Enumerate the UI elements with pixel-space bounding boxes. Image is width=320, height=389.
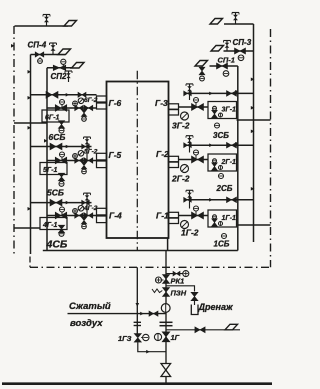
wire top-right vent line — [224, 23, 254, 25]
wire drop to main row 5 — [86, 147, 88, 161]
boundary dash-dot left — [13, 26, 15, 254]
boundary dashed left foot — [29, 257, 31, 268]
circle in box B 1 — [219, 222, 223, 226]
wire center drop — [136, 267, 138, 334]
stub pair G-4 — [97, 208, 107, 215]
boundary dashed right — [270, 29, 272, 267]
valve RK1 — [162, 275, 169, 284]
gauge below vertical valve 4 — [82, 224, 87, 229]
wire main row 6 — [47, 107, 97, 109]
twin valve B 5 — [84, 158, 93, 163]
gauge SP-2 — [61, 59, 66, 64]
twin valve A 6 — [75, 105, 84, 110]
connector left upper — [14, 122, 47, 124]
gauge slash group 4 — [78, 206, 84, 212]
svg-text:3Г-1: 3Г-1 — [222, 107, 237, 114]
actuator below box valve 5 — [59, 181, 64, 186]
wire SP-3 line — [224, 50, 254, 52]
valve PZN — [162, 288, 169, 297]
flag connector F6 — [195, 61, 208, 67]
svg-text:воздух: воздух — [70, 318, 103, 329]
vent on 4SB row — [86, 193, 88, 203]
wire SP-2 line and bus — [47, 68, 79, 251]
gauge left of RK1 — [156, 277, 162, 283]
vent stack V4 — [235, 13, 237, 25]
gauge plus group 4 — [73, 209, 78, 214]
valve 5G main — [55, 157, 67, 164]
wire main row 4 — [47, 215, 97, 217]
svg-text:Г-1: Г-1 — [156, 211, 169, 221]
svg-text:Г-6: Г-6 — [109, 98, 122, 108]
svg-text:СП-3: СП-3 — [233, 38, 252, 47]
wire drop to main row 4 — [86, 203, 88, 216]
wire 5SB top row — [31, 146, 92, 148]
circle in box B 2 — [219, 166, 223, 170]
wire drop right 3 — [189, 93, 191, 100]
junction tick marks — [11, 44, 254, 211]
boundary dashed bottom — [30, 266, 271, 268]
valve 3G right — [192, 104, 204, 111]
gauge slash group 5 — [78, 151, 84, 157]
gauge under SP-4 valve — [38, 59, 43, 64]
svg-text:Дренаж: Дренаж — [198, 302, 233, 312]
wire top-left vent line — [15, 25, 69, 27]
spring PZN — [152, 289, 162, 293]
valve on bottom branch — [195, 327, 205, 333]
gauge slash group 6 — [78, 98, 84, 104]
valve 1G right — [192, 212, 204, 219]
svg-text:СП-4: СП-4 — [28, 41, 47, 50]
svg-text:2Г-2: 2Г-2 — [171, 174, 190, 184]
actuator SB right 3 — [215, 123, 220, 128]
circle in box B 3 — [219, 113, 223, 117]
circle in box A 3 — [213, 106, 217, 110]
actuator below box valve 4 — [59, 231, 64, 236]
valve drain — [191, 292, 198, 300]
valve SP-2 — [53, 65, 66, 70]
svg-text:Г-3: Г-3 — [155, 98, 168, 108]
gauge under SP-3 valve — [238, 55, 244, 61]
svg-text:ПЗН: ПЗН — [171, 289, 187, 298]
wire block to bus — [167, 238, 169, 251]
wire top row right 1 — [184, 199, 254, 201]
svg-text:1Г-1: 1Г-1 — [222, 215, 237, 222]
wire drop right 2 — [189, 145, 191, 152]
branch wire to flag right — [166, 329, 240, 331]
wire main row right 3 — [179, 106, 209, 108]
wire main row right 2 — [179, 159, 209, 161]
svg-text:4Г-2: 4Г-2 — [83, 205, 98, 212]
actuator circle valve 5G — [60, 152, 65, 157]
twin valve A 5 — [75, 158, 84, 163]
drain funnel — [191, 305, 198, 315]
gauge plus group 5 — [73, 154, 78, 159]
small valve on 6SB row — [78, 92, 86, 97]
valve below box 4 — [58, 225, 64, 233]
vertical valve in box 1 — [212, 219, 218, 226]
wire right solid bus — [253, 24, 255, 242]
elbow 1GZ to main — [138, 342, 166, 351]
svg-text:Г-2: Г-2 — [156, 149, 169, 159]
vertical valve in box 2 — [212, 163, 218, 170]
wire SP-1 line — [210, 66, 238, 251]
stub pair G-2 right — [169, 156, 179, 161]
svg-text:5СБ: 5СБ — [47, 188, 64, 198]
flag connector F1 — [64, 21, 77, 27]
valve on right row 2 — [227, 142, 237, 148]
vent stack V5 — [226, 41, 228, 52]
svg-text:РК1: РК1 — [171, 277, 185, 286]
block centerline dash-dot — [136, 71, 138, 251]
box 6G-1 — [42, 110, 69, 122]
vertical valve near stub 6 — [81, 110, 87, 117]
branch gauge wire — [166, 273, 183, 275]
svg-text:Г-5: Г-5 — [109, 150, 122, 160]
wire 4SB top row — [31, 202, 92, 204]
box 5G-1 — [40, 163, 67, 175]
valve 6G main — [55, 105, 67, 112]
vertical valve in box 3 — [212, 110, 218, 117]
gauge plus group 6 — [73, 101, 78, 106]
orifice bars center — [134, 321, 141, 323]
svg-text:3СБ: 3СБ — [213, 131, 229, 140]
wire 6SB top row — [31, 94, 97, 96]
wire main row 5 — [47, 160, 97, 162]
box 2G-1 right — [208, 154, 237, 171]
box 4G-1 — [40, 218, 67, 230]
actuator below box valve 6 — [59, 128, 64, 133]
svg-text:2Г-1: 2Г-1 — [221, 159, 237, 166]
gauge slash right 3 — [181, 112, 189, 120]
hollow valve bottom — [161, 364, 171, 377]
vent on right row 1 — [189, 190, 191, 200]
bus bottom — [43, 250, 238, 252]
valve below box 5 — [58, 173, 64, 181]
gauge slash right 1 — [181, 221, 189, 229]
twin valve B 6 — [84, 105, 93, 110]
vent stack V1 — [46, 15, 48, 27]
actuator circle right 1 — [194, 206, 199, 211]
valve 4G main — [55, 212, 67, 219]
valve on air line — [149, 311, 158, 316]
actuator circle right 2 — [194, 150, 199, 155]
vent on right row 2 — [189, 136, 191, 146]
wire drop right 1 — [189, 200, 191, 209]
air supply wire — [68, 313, 167, 315]
stub pair G-3 — [169, 104, 179, 109]
circle in box A 1 — [213, 215, 217, 219]
valve on right row 3 — [227, 91, 237, 97]
svg-text:6Г-2: 6Г-2 — [84, 97, 98, 104]
box 1G-1 right — [208, 210, 237, 227]
gauge on main line — [161, 304, 170, 313]
actuator circle valve 6G — [60, 100, 65, 105]
stub pair G-5 — [97, 153, 107, 160]
gauge below hanging valve — [200, 76, 205, 81]
twin valve B 4 — [84, 213, 93, 218]
gauge left of 1G — [154, 333, 161, 340]
small valve on 4SB row — [82, 200, 90, 205]
hydraulic block body — [107, 82, 169, 239]
svg-text:4СБ: 4СБ — [46, 239, 68, 251]
connector right lower — [238, 224, 271, 226]
arrow on elbow — [146, 350, 150, 354]
flag connector F4 — [210, 19, 223, 25]
svg-text:СП2: СП2 — [51, 72, 68, 81]
svg-text:4Г-1: 4Г-1 — [42, 222, 58, 229]
valve SP-1 — [217, 63, 228, 69]
gauge slash right 2 — [181, 165, 189, 173]
gauge plus on branch — [183, 271, 189, 277]
valve on 6SB row — [46, 91, 58, 98]
stub pair G-6 — [97, 96, 107, 102]
svg-text:Сжатый: Сжатый — [69, 301, 111, 312]
wire top row right 2 — [184, 144, 254, 146]
svg-text:5Г-2: 5Г-2 — [84, 149, 98, 156]
svg-text:5Г-1: 5Г-1 — [43, 167, 58, 174]
valve on right row 1 — [227, 197, 237, 203]
svg-text:6СБ: 6СБ — [49, 132, 66, 142]
actuator circle valve 4G — [60, 207, 65, 212]
gauge under SP-1 valve — [223, 71, 229, 77]
svg-text:3Г-2: 3Г-2 — [172, 121, 190, 131]
valve 1G — [162, 332, 170, 342]
vent on right row 3 — [189, 84, 191, 94]
flag connector F7 — [225, 324, 238, 330]
valve below box 6 — [58, 121, 64, 129]
gauge below vertical valve 6 — [82, 117, 87, 122]
valve on branch — [173, 271, 180, 276]
vent glyph after SP2 label — [68, 71, 70, 82]
small valve on right row 2 — [184, 143, 192, 148]
svg-text:СП-1: СП-1 — [218, 56, 235, 65]
valve SP-3 — [235, 48, 246, 54]
gauge below vertical valve 5 — [82, 169, 87, 174]
valve on 5SB row — [50, 143, 62, 150]
twin valve A 4 — [75, 213, 84, 218]
vent stack V2 — [52, 43, 54, 55]
vent on 5SB row — [86, 137, 88, 147]
arrow on center drop — [136, 303, 140, 307]
svg-text:1СБ: 1СБ — [214, 240, 230, 249]
valve on 4SB row — [50, 199, 62, 206]
wire main row right 1 — [179, 215, 209, 217]
orifice bars main — [160, 321, 173, 323]
flag connector F3 — [72, 63, 85, 69]
stub pair G-1 right — [169, 212, 179, 217]
svg-text:6Г-1: 6Г-1 — [45, 115, 60, 122]
circle in box A 2 — [213, 159, 217, 163]
valve 2G right — [192, 156, 204, 163]
ground line — [2, 382, 272, 385]
small valve on right row 1 — [184, 197, 192, 202]
flag connector F2 — [58, 49, 71, 55]
valve 1GZ — [134, 334, 141, 343]
svg-text:1Г-2: 1Г-2 — [181, 228, 199, 238]
wire top row right 3 — [184, 92, 254, 94]
svg-text:1ГЗ: 1ГЗ — [118, 334, 132, 343]
small valve on right row 3 — [184, 91, 192, 96]
box 3G-1 right — [208, 102, 237, 119]
vertical valve near stub 5 — [81, 162, 87, 169]
drain elbow wire — [166, 286, 195, 305]
small valve on 5SB row — [82, 144, 90, 149]
gauge right of 1GZ — [143, 334, 149, 340]
svg-text:Г-4: Г-4 — [109, 211, 122, 221]
svg-text:2СБ: 2СБ — [216, 184, 233, 193]
valve hanging below F6 — [199, 67, 205, 75]
svg-text:1Г: 1Г — [171, 333, 180, 342]
connector right upper — [237, 119, 271, 121]
connector left lower — [14, 227, 40, 229]
actuator SB right 2 — [219, 174, 224, 179]
arrow on air line — [140, 312, 144, 316]
wire SP-4 line and left bus — [31, 55, 66, 255]
actuator circle right 3 — [194, 98, 199, 103]
valve SP-4 — [35, 52, 44, 57]
actuator SB right 1 — [222, 234, 227, 239]
vertical valve near stub 4 — [81, 217, 87, 224]
main drop wire RK1 line — [165, 251, 167, 384]
flag connector F5 — [211, 46, 224, 52]
